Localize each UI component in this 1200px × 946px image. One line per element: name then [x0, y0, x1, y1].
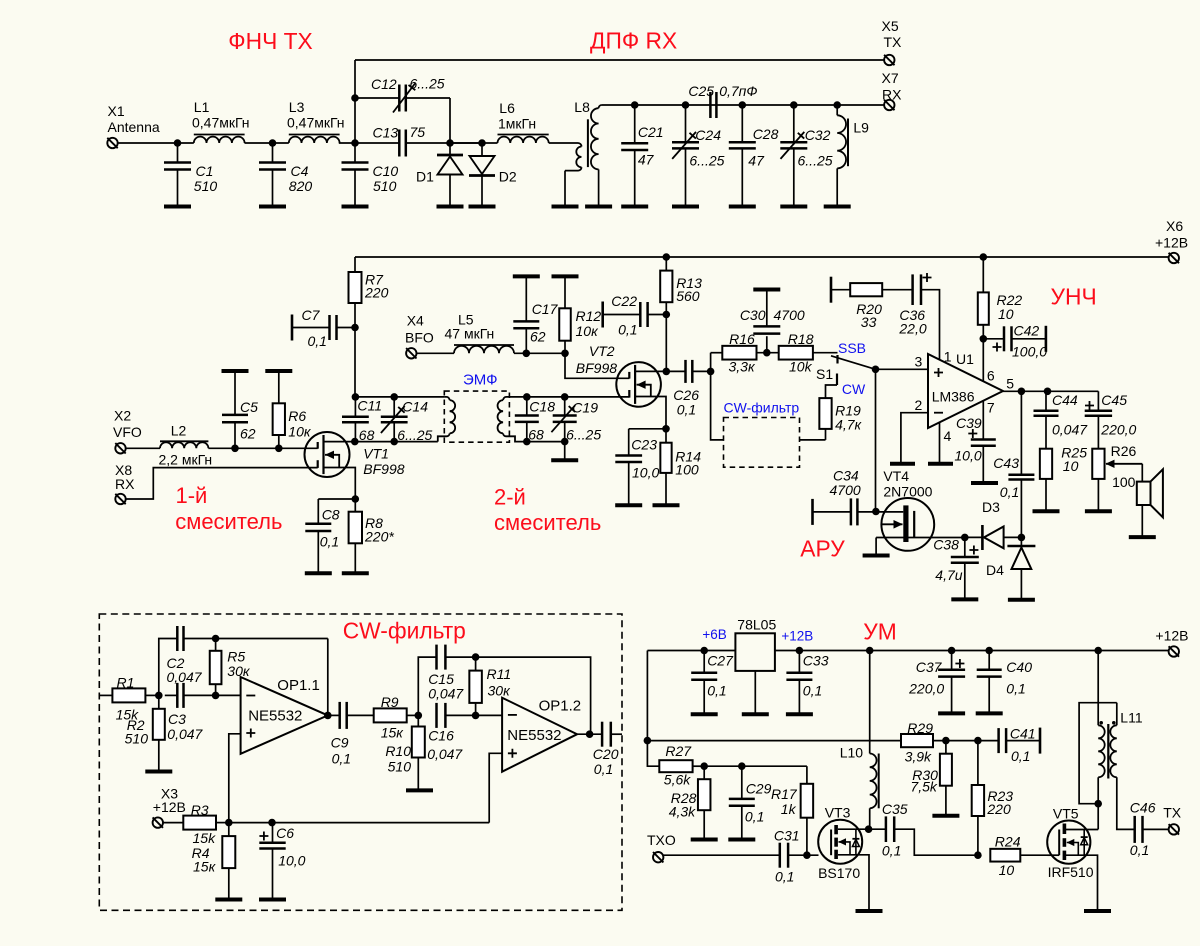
ground under C27: [691, 712, 718, 716]
svg-text:CW-фильтр: CW-фильтр: [343, 618, 466, 644]
svg-text:S1: S1: [816, 366, 833, 382]
ground under C32: [780, 205, 807, 209]
svg-text:смеситель: смеситель: [494, 510, 601, 535]
wire L10 to VT3 drain: [869, 808, 871, 829]
ground under R25: [1033, 509, 1060, 513]
transformer L8 secondary: [602, 104, 635, 106]
wire PA +6V rail: [647, 650, 735, 652]
node at C1: [174, 139, 182, 147]
svg-text:C27: C27: [707, 653, 734, 669]
wire S1 pole down to AGC: [875, 369, 877, 511]
svg-text:OP1.2: OP1.2: [539, 698, 582, 715]
dashed box CW filter: [99, 614, 622, 910]
node R6: [275, 445, 283, 453]
svg-text:VT1: VT1: [363, 446, 389, 462]
svg-text:ДПФ RX: ДПФ RX: [590, 28, 677, 54]
svg-text:R12: R12: [576, 308, 602, 324]
svg-text:X2: X2: [114, 408, 131, 424]
svg-text:C46: C46: [1130, 800, 1156, 816]
svg-text:0,047: 0,047: [428, 685, 464, 701]
wire R13 to VT2 drain: [665, 315, 667, 372]
ground under C1: [164, 205, 191, 209]
ground VT5 source: [1084, 909, 1111, 913]
svg-text:C45: C45: [1101, 392, 1127, 408]
svg-text:7,5k: 7,5k: [910, 778, 937, 794]
resistor R25: [1040, 449, 1052, 479]
resistor R12: [564, 276, 566, 308]
svg-text:C28: C28: [753, 126, 779, 142]
node C33: [796, 647, 804, 655]
svg-text:C14: C14: [402, 399, 428, 415]
wire VT4 gate: [876, 511, 903, 513]
svg-text:10к: 10к: [576, 323, 600, 339]
resistor R7: [354, 257, 356, 272]
transformer L11 bypass loop: [1079, 703, 1117, 804]
svg-text:220,0: 220,0: [1100, 421, 1136, 437]
wire to TX bypass: [354, 60, 356, 143]
capacitor C2: [159, 639, 178, 696]
svg-text:0,1: 0,1: [594, 761, 613, 777]
svg-text:R17: R17: [771, 786, 798, 802]
svg-text:смеситель: смеситель: [175, 509, 282, 534]
svg-text:2,2 мкГн: 2,2 мкГн: [159, 452, 213, 468]
svg-text:C21: C21: [638, 124, 664, 140]
ground under C33: [786, 712, 813, 716]
svg-text:0,1: 0,1: [308, 333, 327, 349]
switch S1 lever: [831, 356, 876, 370]
svg-text:CW: CW: [842, 381, 866, 397]
wire C26 node to CW box: [711, 371, 724, 440]
capacitor C40: [988, 651, 990, 670]
svg-text:C23: C23: [631, 436, 657, 452]
svg-text:X6: X6: [1166, 218, 1183, 234]
svg-text:C29: C29: [746, 781, 772, 797]
svg-text:C38: C38: [933, 537, 959, 553]
svg-text:15к: 15к: [193, 859, 217, 875]
node C12 branch: [351, 94, 359, 102]
svg-text:C26: C26: [673, 387, 699, 403]
svg-text:C20: C20: [593, 746, 619, 762]
svg-text:1k: 1k: [781, 801, 797, 817]
resistor R13: [663, 253, 671, 261]
wire D1 to D2: [450, 142, 482, 144]
capacitor C18: [526, 397, 528, 416]
svg-text:R10: R10: [385, 743, 411, 759]
svg-text:15к: 15к: [381, 725, 405, 741]
svg-text:0,1: 0,1: [882, 842, 901, 858]
svg-text:VT3: VT3: [825, 805, 851, 821]
svg-text:7: 7: [987, 400, 995, 416]
svg-text:0,1: 0,1: [1011, 748, 1030, 764]
svg-text:C31: C31: [774, 827, 800, 843]
svg-text:УНЧ: УНЧ: [1051, 284, 1097, 310]
ground bar above C5: [222, 369, 249, 373]
mixer tank rails: [355, 396, 444, 398]
capacitor C8: [318, 498, 355, 500]
node at L9: [833, 101, 841, 109]
capacitor C37 electrolytic: [948, 647, 956, 655]
svg-text:R18: R18: [788, 331, 814, 347]
svg-text:75: 75: [410, 124, 426, 140]
wire OP1.1 plus input: [229, 734, 241, 823]
wire EMF secondary top to C18 rail: [509, 396, 630, 398]
svg-text:78L05: 78L05: [737, 616, 776, 632]
capacitor C29: [741, 766, 743, 799]
resistor R14: [665, 429, 667, 443]
node at C28: [739, 101, 747, 109]
svg-text:L8: L8: [574, 99, 590, 115]
node R9 out: [415, 712, 423, 720]
node C31 R17 VT3 gate: [803, 851, 811, 859]
ground under D4: [1008, 598, 1035, 602]
svg-text:+12В: +12В: [1155, 235, 1188, 251]
svg-text:BF998: BF998: [576, 360, 617, 376]
resistor R8: [354, 499, 356, 512]
svg-text:VT4: VT4: [883, 468, 909, 484]
svg-text:R16: R16: [729, 331, 755, 347]
node at C24: [682, 101, 690, 109]
ground under R4: [215, 898, 242, 902]
svg-text:0,1: 0,1: [745, 809, 764, 825]
ground bar above R12: [552, 274, 579, 278]
capacitor C32 trimmer: [793, 105, 795, 142]
svg-text:VT2: VT2: [589, 343, 615, 359]
svg-text:10: 10: [998, 306, 1014, 322]
svg-text:L6: L6: [499, 100, 515, 116]
svg-text:C9: C9: [331, 735, 349, 751]
svg-text:68: 68: [359, 427, 375, 443]
wire feedback top: [216, 638, 328, 640]
svg-text:4700: 4700: [774, 307, 805, 323]
ground bar above C17: [513, 274, 540, 278]
svg-text:10: 10: [999, 862, 1015, 878]
wire VT5 drain: [1066, 829, 1098, 831]
svg-text:10: 10: [1063, 458, 1079, 474]
svg-text:30к: 30к: [488, 683, 512, 699]
capacitor C10: [354, 143, 356, 163]
R26 wiper arrow: [1106, 463, 1142, 465]
node C26 output: [707, 368, 715, 376]
resistor R24: [990, 849, 1020, 862]
ground VT4 source: [863, 554, 890, 558]
svg-text:4700: 4700: [830, 482, 861, 498]
svg-text:220: 220: [364, 285, 389, 301]
wire VT5 gate: [1048, 854, 1060, 856]
svg-text:5,6k: 5,6k: [664, 772, 691, 788]
node VT4 gate: [872, 508, 880, 516]
svg-text:33: 33: [861, 314, 877, 330]
svg-text:22,0: 22,0: [898, 321, 926, 337]
wire U1 pin7 to C39: [982, 401, 984, 440]
wire speaker to ground: [1141, 505, 1143, 537]
svg-text:10,0: 10,0: [954, 448, 981, 464]
svg-text:TXO: TXO: [647, 832, 676, 848]
ground bar above C30: [753, 288, 780, 292]
svg-text:4: 4: [944, 428, 952, 444]
node at C4: [269, 139, 277, 147]
svg-text:220,0: 220,0: [908, 681, 944, 697]
svg-text:220: 220: [986, 801, 1011, 817]
ground U1 pin2: [890, 462, 915, 466]
svg-text:IRF510: IRF510: [1048, 864, 1094, 880]
resistor R5: [215, 639, 217, 651]
svg-text:C10: C10: [373, 163, 399, 179]
svg-text:L3: L3: [289, 99, 305, 115]
svg-text:+12В: +12В: [153, 799, 186, 815]
VT3 arrow: [839, 842, 851, 855]
resistor R6: [278, 371, 280, 403]
wire pin6: [982, 339, 984, 382]
wire R19 to CW box: [800, 439, 826, 441]
resistor R28: [703, 766, 705, 779]
svg-text:C19: C19: [572, 400, 598, 416]
capacitor C16: [435, 703, 438, 728]
ground under D2: [469, 205, 496, 209]
resistor R1: [99, 694, 112, 696]
svg-text:R27: R27: [665, 743, 692, 759]
wire TX main line: [118, 142, 194, 144]
node C22 R13: [663, 311, 671, 319]
svg-text:CW-фильтр: CW-фильтр: [724, 399, 800, 415]
ground bar above R6: [265, 369, 292, 373]
svg-text:15k: 15k: [193, 830, 217, 846]
node +6V bias rail: [644, 737, 652, 745]
dashed box CW filter link: [724, 418, 800, 468]
ground under R8: [342, 571, 369, 575]
node VT3 drain L10 C35: [865, 825, 873, 833]
wire BFO node to VT2 gate1: [565, 353, 629, 378]
svg-text:BS170: BS170: [818, 865, 860, 881]
node C16 R11 minus: [472, 712, 480, 720]
EMF primary winding: [444, 397, 449, 400]
svg-text:C22: C22: [611, 293, 637, 309]
svg-text:R26: R26: [1111, 443, 1137, 459]
svg-text:NE5532: NE5532: [507, 727, 561, 744]
wire OP1.2 plus input: [489, 753, 502, 822]
wire L11 secondary to C46: [1117, 777, 1135, 829]
svg-text:D4: D4: [986, 562, 1004, 578]
ground under C38: [951, 597, 978, 601]
svg-text:C44: C44: [1052, 392, 1078, 408]
svg-text:10к: 10к: [288, 424, 312, 440]
ground under C6: [259, 898, 286, 902]
capacitor C6 electrolytic: [272, 823, 274, 843]
resistor R23: [977, 741, 979, 785]
svg-text:4,3k: 4,3k: [669, 803, 696, 819]
resistor R4: [228, 823, 230, 837]
svg-text:6...25: 6...25: [689, 153, 724, 169]
capacitor C38 electrolytic: [964, 537, 966, 557]
node at D2: [478, 139, 486, 147]
capacitor C24 trimmer: [685, 105, 687, 142]
resistor R10: [417, 715, 419, 726]
svg-text:10,0: 10,0: [632, 464, 659, 480]
svg-text:47: 47: [638, 152, 655, 168]
resistor R26 potentiometer: [1092, 449, 1104, 479]
svg-text:30к: 30к: [227, 663, 251, 679]
node at C21: [631, 101, 639, 109]
node R23 C41: [974, 737, 982, 745]
svg-text:L9: L9: [853, 120, 869, 136]
switch S1 pole node: [872, 366, 880, 374]
svg-text:0,47мкГн: 0,47мкГн: [192, 115, 250, 131]
svg-text:2: 2: [915, 397, 923, 413]
svg-text:OP1.1: OP1.1: [277, 677, 320, 694]
svg-text:C40: C40: [1006, 659, 1032, 675]
ground under C28: [729, 205, 756, 209]
capacitor C42 electrolytic: [983, 338, 1004, 340]
node VT2 source R14: [662, 425, 670, 433]
svg-text:X1: X1: [108, 103, 125, 119]
capacitor C31: [779, 843, 782, 868]
wire D3: [965, 536, 983, 538]
svg-text:0,47мкГн: 0,47мкГн: [287, 115, 345, 131]
svg-text:100,0: 100,0: [1012, 344, 1047, 360]
svg-text:L11: L11: [1120, 709, 1143, 725]
node OP1.1 output: [324, 712, 332, 720]
svg-text:C24: C24: [695, 127, 721, 143]
ground under D1: [437, 205, 464, 209]
capacitor C1: [177, 143, 179, 163]
resistor R27: [659, 760, 692, 772]
svg-text:C39: C39: [956, 415, 982, 431]
inductor L10 core: [878, 754, 880, 809]
ground under R28: [691, 838, 718, 842]
svg-text:C32: C32: [805, 127, 831, 143]
svg-text:3,9k: 3,9k: [905, 748, 932, 764]
capacitor C17: [525, 276, 527, 321]
VT5 arrow: [1067, 843, 1079, 856]
node L11 VT5 drain: [1094, 800, 1102, 808]
wire VT2 drain: [635, 370, 666, 372]
svg-text:C17: C17: [532, 301, 559, 317]
capacitor C9: [328, 714, 340, 716]
ground under L8 primary: [552, 205, 579, 209]
ground under C23: [615, 503, 642, 507]
capacitor C3: [176, 683, 179, 708]
svg-text:+12В: +12В: [1155, 628, 1188, 644]
svg-text:X5: X5: [882, 18, 899, 34]
ground under C39: [971, 481, 998, 485]
transformer L11 primary: [1098, 725, 1105, 777]
wire C12 down to D1 node: [449, 98, 451, 143]
svg-text:C5: C5: [240, 399, 258, 415]
node OP1.2 output: [586, 730, 594, 738]
resistor R30: [945, 741, 947, 754]
svg-text:220*: 220*: [364, 529, 394, 545]
node VT1 source: [352, 495, 360, 503]
node VT4 drain C38 D3: [961, 534, 969, 542]
svg-text:C35: C35: [882, 801, 908, 817]
wire +6V down: [647, 651, 659, 767]
wire wiper to speaker: [1141, 464, 1143, 482]
VT4 arrow: [882, 523, 903, 525]
svg-text:0,1: 0,1: [320, 534, 339, 550]
wire L10 branch: [869, 651, 871, 754]
ground under C40: [976, 711, 1003, 715]
wire C35 to R24: [894, 829, 978, 855]
inductor L9 core: [847, 119, 849, 167]
speaker BA1: [1137, 482, 1151, 505]
svg-text:510: 510: [194, 178, 218, 194]
capacitor C28: [741, 105, 743, 142]
svg-text:0,1: 0,1: [618, 322, 637, 338]
wire bias to C29 R17: [704, 765, 807, 767]
svg-text:C30: C30: [740, 307, 766, 323]
wire top TX line to X5: [355, 59, 884, 61]
svg-text:D1: D1: [416, 169, 434, 185]
svg-text:C33: C33: [803, 653, 829, 669]
wire VT5 source: [1066, 855, 1098, 910]
capacitor C34: [811, 499, 814, 525]
transformer L8 core: [587, 119, 589, 167]
wire +12V rail: [355, 256, 1169, 258]
svg-text:+12В: +12В: [781, 629, 813, 644]
capacitor C20: [601, 722, 604, 747]
ground under C21: [621, 205, 648, 209]
svg-text:100: 100: [675, 462, 699, 478]
svg-text:L10: L10: [840, 745, 864, 761]
node C5: [231, 445, 239, 453]
transformer L11 primary feed: [1094, 647, 1102, 655]
node C17 on BFO line: [523, 350, 531, 358]
resistor R3: [163, 822, 183, 824]
capacitor C11: [354, 397, 356, 417]
svg-text:C12: C12: [371, 76, 397, 92]
svg-text:C6: C6: [276, 825, 294, 841]
resistor R22: [980, 253, 988, 261]
resistor R19: [826, 385, 838, 398]
diode D1: [449, 143, 451, 155]
diode D3: [981, 525, 984, 550]
transformer L11 secondary: [1110, 725, 1117, 777]
svg-text:RX: RX: [115, 476, 135, 492]
second tank rails: [527, 441, 565, 443]
node VT2 drain: [663, 368, 671, 376]
wire RX line: [635, 104, 884, 106]
wire U1 pin2 to ground: [901, 413, 928, 464]
resistor R2: [158, 695, 160, 708]
ground under speaker: [1129, 535, 1156, 539]
svg-text:0,047: 0,047: [167, 726, 203, 742]
ground VT3 source: [856, 909, 883, 913]
wire C19 to ground: [564, 442, 566, 460]
ground under R10: [406, 788, 433, 792]
capacitor C22: [601, 302, 604, 328]
svg-text:6...25: 6...25: [397, 427, 432, 443]
ground U1 pin4: [928, 462, 953, 466]
svg-text:VFO: VFO: [113, 424, 142, 440]
ground under R14: [653, 503, 680, 507]
svg-text:6...25: 6...25: [566, 427, 601, 443]
wire U1 pin4 to ground: [939, 422, 941, 463]
svg-text:NE5532: NE5532: [248, 708, 302, 725]
svg-text:VT5: VT5: [1053, 806, 1079, 822]
svg-text:10,0: 10,0: [278, 852, 305, 868]
ground under L9: [824, 205, 851, 209]
svg-text:C7: C7: [302, 307, 321, 323]
svg-text:0,7пФ: 0,7пФ: [719, 83, 757, 99]
ground under C29: [728, 838, 755, 842]
svg-text:C13: C13: [373, 125, 399, 141]
svg-text:R29: R29: [907, 720, 933, 736]
svg-text:560: 560: [676, 288, 700, 304]
svg-text:10k: 10k: [789, 359, 813, 375]
ground under C4: [259, 205, 286, 209]
capacitor C26: [666, 370, 685, 372]
node at D1: [446, 139, 454, 147]
wire S1 pole to U1 pin3: [876, 368, 929, 370]
